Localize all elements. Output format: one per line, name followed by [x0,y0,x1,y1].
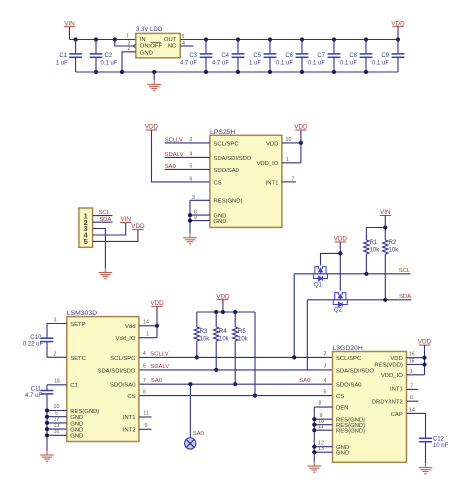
svg-text:6: 6 [410,395,413,401]
svg-text:10k: 10k [219,336,230,342]
svg-text:SDA/SDI/SDO: SDA/SDI/SDO [98,368,136,374]
wire J1 pin5 to VDD [93,230,138,242]
svg-text:CS: CS [213,180,221,186]
junction top rail x=238 [236,37,240,41]
wire VDD down to U2 CS [152,130,210,182]
svg-text:R2: R2 [389,240,397,246]
svg-text:4.7 uF: 4.7 uF [180,60,197,66]
junction SCLLV at Q1 drop [292,355,296,359]
svg-text:7: 7 [292,176,295,182]
svg-text:6: 6 [190,176,193,182]
svg-text:R1: R1 [370,240,378,246]
capacitor C6 [301,40,303,54]
wire net SDALV row [139,369,333,371]
wire U4 INT1 pin7 stub [407,388,419,390]
svg-text:13: 13 [54,423,60,429]
wire U3 INT2 pin9 stub [139,428,152,430]
junction CS row at VDD [253,394,257,398]
junction SCL at R1 [364,272,368,276]
wire top rail right (U1 OUT to VDD) [180,39,398,41]
junction bottom rail x=238 [236,70,240,74]
svg-text:GND: GND [140,50,153,56]
capacitor C8 [365,40,367,54]
junction rail at VDD feed [221,310,225,314]
svg-text:3: 3 [192,195,195,201]
svg-text:SETP: SETP [70,322,85,328]
svg-text:GND: GND [70,421,83,427]
svg-text:VDD_IO: VDD_IO [381,373,403,379]
junction U4 gnd bus pin12 [312,445,316,449]
svg-text:VDD_IO: VDD_IO [256,161,278,167]
wire U3 GND pin16 [47,434,67,436]
svg-text:SDALV: SDALV [150,364,169,370]
wire U4 DRDY/INT2 pin6 stub [407,400,419,402]
svg-text:3: 3 [324,364,327,370]
junction U3 gnd bus pin5 [45,415,49,419]
svg-text:0.1 uF: 0.1 uF [340,60,357,66]
svg-text:INT1: INT1 [266,180,279,186]
svg-text:LSM303D: LSM303D [67,310,97,317]
wire U3 Vdd_IO pin1 [139,337,157,339]
svg-text:11: 11 [318,424,324,430]
wire SA0 to testpoint [189,384,191,437]
wire net SCLLV row [139,356,333,358]
svg-text:15: 15 [409,359,415,365]
svg-text:5: 5 [190,164,193,170]
svg-text:C4: C4 [221,53,229,59]
junction U4 pin15 [422,362,426,366]
svg-text:8: 8 [319,401,322,407]
svg-text:SCL/SPC: SCL/SPC [213,141,239,147]
wire U2 GND pin9 [190,220,210,222]
junction rail at R4 [214,310,218,314]
svg-text:C9: C9 [381,53,389,59]
svg-text:10: 10 [54,404,60,410]
junction top rail x=398 [396,37,400,41]
svg-text:6: 6 [143,364,146,370]
junction bottom rail x=366 [364,70,368,74]
svg-text:2: 2 [324,351,327,357]
wire U3 GND pin10 [47,410,67,412]
capacitor C10 [46,324,48,338]
gyroscope U4 L3GD20H [333,352,407,463]
wire net SDA row [307,299,411,301]
svg-text:RES(VDD): RES(VDD) [374,363,403,369]
wire U2 VDD pin10 [282,142,301,144]
svg-text:L3GD20H: L3GD20H [333,345,363,352]
junction top rail at U1 ON/OFF branch [113,37,117,41]
svg-text:10k: 10k [389,248,400,254]
svg-text:SA0: SA0 [193,431,205,437]
wire branch to U1 pin 3 ON/OFF [115,40,136,47]
svg-text:GND: GND [213,219,226,225]
svg-text:GND: GND [336,451,349,457]
transistor Q2 [333,293,347,307]
svg-text:SDALV: SDALV [165,152,184,158]
svg-text:LPS25H: LPS25H [210,129,235,136]
wire U2 INT1 pin7 stub [282,181,296,183]
svg-text:RES(GND): RES(GND) [213,199,242,205]
capacitor C7 [333,40,335,54]
junction bottom rail x=96 [94,70,98,74]
svg-text:R4: R4 [219,329,227,335]
wire U2 VDD_IO pin1 [282,162,301,164]
junction U3 gnd bus pin16 [45,433,49,437]
accelerometer/magnetometer U3 LSM303D [67,317,139,442]
svg-text:C10: C10 [30,335,42,341]
junction SA0 at testpoint drop [188,382,192,386]
svg-text:4.7 uF: 4.7 uF [212,60,229,66]
svg-text:1: 1 [286,157,289,163]
junction top rail x=334 [332,37,336,41]
svg-text:GND: GND [70,428,83,434]
svg-text:5: 5 [84,237,88,246]
svg-text:3: 3 [54,318,57,324]
junction top rail at C1 [74,37,78,41]
svg-text:Q2: Q2 [334,308,343,314]
svg-text:C2: C2 [105,53,113,59]
junction U4 gnd bus pin13 [312,450,316,454]
capacitor C1 [75,40,77,54]
svg-text:SCLLV: SCLLV [150,351,168,357]
wire U2 RES(GND) pin3 [190,199,210,201]
svg-text:INT2: INT2 [123,428,136,434]
svg-text:C7: C7 [317,53,325,59]
capacitor C2 [95,40,97,54]
svg-text:2: 2 [54,351,57,357]
wire net CS row [139,395,333,397]
junction top rail x=366 [364,37,368,41]
svg-text:16: 16 [54,429,60,435]
svg-text:16: 16 [409,352,415,358]
svg-text:C1: C1 [70,383,78,389]
svg-text:8: 8 [143,389,146,395]
svg-text:2: 2 [190,137,193,143]
pin 3 input arrow U1 [133,44,136,48]
pressure sensor U2 LPS25H [210,135,282,227]
svg-text:15: 15 [54,379,60,385]
svg-text:10 nF: 10 nF [433,443,449,449]
junction U4 gnd bus pin10 [312,423,316,427]
svg-text:12: 12 [54,417,60,423]
svg-text:0.1 uF: 0.1 uF [276,60,293,66]
svg-text:4: 4 [190,152,193,158]
svg-text:SDO/SA0: SDO/SA0 [213,168,239,174]
wire rail to CS row [254,312,256,396]
svg-text:5: 5 [182,34,185,40]
svg-text:Vdd_IO: Vdd_IO [116,336,136,342]
junction SDA at R2 [383,298,387,302]
svg-text:IN: IN [140,37,146,43]
wire J1 pin3 to ground [93,229,106,269]
svg-text:Vdd: Vdd [125,324,135,330]
svg-text:SDO/SA0: SDO/SA0 [110,383,136,389]
svg-text:0.1 uF: 0.1 uF [308,60,325,66]
svg-text:2: 2 [128,46,131,52]
svg-text:4: 4 [324,378,327,384]
junction U4 pin16 [422,356,426,360]
junction bottom rail x=334 [332,70,336,74]
connector J1 (5-pin header) [79,208,93,247]
wire U4 pin12 [314,446,332,448]
svg-text:R3: R3 [200,329,208,335]
wire U4 ground bus vertical [313,407,315,461]
svg-text:SCL/SPC: SCL/SPC [336,356,362,362]
junction bottom rail x=206 [204,70,208,74]
svg-text:DEN: DEN [336,406,348,412]
svg-text:C1: C1 [59,53,67,59]
svg-text:4: 4 [143,351,146,357]
wire U1 GND pin2 to bottom rail [122,52,136,72]
junction U3 gnd bus pin12 [45,421,49,425]
svg-text:10k: 10k [200,336,211,342]
wire U3 Vdd pin14 [139,325,157,327]
capacitor C9 [397,40,399,54]
svg-text:SDA/SDI/SDO: SDA/SDI/SDO [336,368,374,374]
junction top rail x=270 [268,37,272,41]
svg-text:1: 1 [146,331,149,337]
wire SCLLV drop from Q1 source [293,274,295,358]
svg-text:DRDY/INT2: DRDY/INT2 [372,399,403,405]
junction top rail x=206 [204,37,208,41]
svg-text:1: 1 [126,33,129,39]
junction SA0 at R5 [233,382,237,386]
svg-text:SCLLV: SCLLV [165,137,183,143]
wire net SA0 stub U2 pin5 [165,168,210,170]
resistor R2 10k [384,228,386,241]
wire U3 GND pin13 [47,428,67,430]
svg-text:SCL: SCL [399,268,411,274]
svg-text:CS: CS [127,394,135,400]
svg-text:14: 14 [143,319,149,325]
svg-text:C11: C11 [31,387,42,393]
capacitor C5 [269,40,271,54]
svg-text:OUT: OUT [164,37,177,43]
wire J1 pin2 SDA stub [93,221,113,223]
svg-text:SCL/SPC: SCL/SPC [110,356,136,362]
svg-text:10k: 10k [238,336,249,342]
svg-text:Q1: Q1 [314,282,323,288]
capacitor C4 [237,40,239,54]
svg-text:3.3V LDO: 3.3V LDO [136,27,163,33]
junction U3 gnd bus pin10 [45,408,49,412]
wire net SCL row [294,273,410,275]
wire VIN to pullup rail [384,216,386,228]
svg-text:SDA: SDA [99,217,111,223]
resistor R4 10k [215,312,217,327]
svg-text:7: 7 [143,378,146,384]
regulator U1 3.3V LDO [136,33,181,57]
wire pullup rail R3-R5 [197,311,255,313]
svg-text:R5: R5 [238,329,246,335]
svg-text:0.22 uF: 0.22 uF [23,342,44,348]
junction U2 VDD [299,141,303,145]
wire bottom rail to ground [153,72,155,80]
wire U2 GND pin8 [190,214,210,216]
svg-text:GND: GND [70,434,83,440]
svg-text:5: 5 [55,410,58,416]
transistor Q1 [314,267,328,281]
wire U1 NC pin4 stub [180,45,193,47]
capacitor C12 10 nF [419,437,432,439]
wire U3 C1 pin15 [47,384,67,386]
junction U3 Vdd [155,324,159,328]
ground (under U3) [40,451,54,462]
svg-text:C3: C3 [189,53,197,59]
svg-text:9: 9 [194,215,197,221]
testpoint SA0 (pad) [185,438,196,449]
svg-text:SDO/SA0: SDO/SA0 [336,383,362,389]
wire U4 pin13 [314,451,332,453]
wire U4 VDD pin16 [407,357,425,359]
svg-text:SDA: SDA [399,294,411,300]
wire net SA0 row [139,383,333,385]
wire J1 pin4 to VIN [93,223,126,235]
svg-text:1 uF: 1 uF [249,60,261,66]
junction U2 pin9 [188,219,192,223]
junction rail at R5 [233,310,237,314]
wire U4 pin11 [314,429,332,431]
capacitor C3 [205,40,207,54]
ground (under C12) [419,463,433,474]
wire U4 pin10 [314,424,332,426]
ground (under U4) [308,462,322,473]
wire VDD vertical to Q2 gate [339,242,341,291]
ground (top section) [147,80,161,91]
svg-text:C5: C5 [253,53,261,59]
junction bottom rail x=154.2 [152,70,156,74]
svg-text:NC: NC [168,44,177,50]
wire VDD to top rail [397,27,399,40]
svg-text:1 uF: 1 uF [56,60,68,66]
wire U4 VDD_IO pin1 [407,374,425,376]
svg-text:INT1: INT1 [390,387,403,393]
junction pullup rail [383,225,387,229]
wire SDALV drop from Q2 source [306,300,308,370]
wire U4 pin9 [314,418,332,420]
svg-text:C12: C12 [433,437,445,443]
resistor R3 10k [196,312,198,327]
wire U4 RES(VDD) pin15 [407,364,425,366]
wire gate branch to Q1 [321,253,341,265]
svg-text:7: 7 [410,383,413,389]
svg-text:4.7 uF: 4.7 uF [25,393,42,399]
capacitor C11 [46,385,48,390]
svg-text:CS: CS [336,394,344,400]
junction VDD gate branch [338,251,342,255]
svg-text:GND: GND [70,415,83,421]
wire U4 CAP pin14 to C12 [407,413,426,437]
wire net SCLLV stub U2 pin2 [165,142,210,144]
svg-text:SDA/SDI/SDO: SDA/SDI/SDO [213,156,251,162]
junction U2 pin8 [188,213,192,217]
wire pullup rail R1-R2 [366,227,385,229]
svg-text:SETC: SETC [70,356,86,362]
wire top rail left (VIN to U1 pin1) [70,39,136,41]
svg-text:ON/OFF: ON/OFF [140,44,163,50]
wire VDD vertical U4 [424,345,426,375]
svg-text:VDD: VDD [266,141,278,147]
svg-text:RES(GND): RES(GND) [336,429,365,435]
svg-text:SCL: SCL [99,210,111,216]
ground (under J1) [99,268,113,279]
resistor R1 10k [365,228,367,241]
svg-text:10: 10 [286,137,292,143]
junction bottom rail x=302 [300,70,304,74]
junction U4 gnd bus pin9 [312,417,316,421]
junction U4 gnd bus pin11 [312,428,316,432]
junction top rail x=302 [300,37,304,41]
wire U3 GND pin5 [47,416,67,418]
svg-text:5: 5 [324,389,327,395]
wire U2 ground bus vertical [189,200,191,233]
svg-text:0.1 uF: 0.1 uF [372,60,389,66]
svg-text:14: 14 [409,407,415,413]
svg-text:10k: 10k [370,248,381,254]
wire VDD vertical to U3 Vdd_IO [156,307,158,338]
wire U3 GND pin12 [47,422,67,424]
svg-text:SA0: SA0 [165,164,177,170]
resistor R5 10k [234,312,236,327]
wire VDD vertical to U2 VDD_IO [300,130,302,163]
junction SCLLV at R3 [195,355,199,359]
svg-text:VDD: VDD [390,356,402,362]
svg-text:INT1: INT1 [123,415,136,421]
junction bottom rail x=270 [268,70,272,74]
wire bottom rail [76,71,398,73]
wire VDD to pullup rail [222,300,224,312]
svg-text:13: 13 [318,446,324,452]
wire net SDALV stub U2 pin4 [165,156,210,158]
svg-text:SA0: SA0 [151,378,163,384]
wire U4 DEN pin8 [314,406,332,408]
wire U3 SETP pin3 [47,323,67,325]
svg-text:11: 11 [143,411,149,417]
wire U3 INT1 pin11 stub [139,416,152,418]
junction top rail at C2 [94,37,98,41]
wire VIN to top rail [69,27,71,40]
svg-text:9: 9 [145,423,148,429]
svg-text:VDD: VDD [131,223,145,230]
junction U3 gnd bus pin13 [45,427,49,431]
svg-text:SA0: SA0 [299,378,311,384]
svg-text:C6: C6 [285,53,293,59]
ground (under U2) [183,233,197,244]
svg-text:CAP: CAP [391,412,403,418]
svg-text:C8: C8 [349,53,357,59]
junction SDALV at R4 [214,368,218,372]
svg-text:RES(GND): RES(GND) [70,409,99,415]
svg-text:0.1 uF: 0.1 uF [101,60,118,66]
junction bottom rail x=122 [120,70,124,74]
svg-text:1: 1 [410,369,413,375]
wire J1 pin1 SCL stub [93,215,113,217]
wire U3 SETC pin2 [47,356,67,358]
